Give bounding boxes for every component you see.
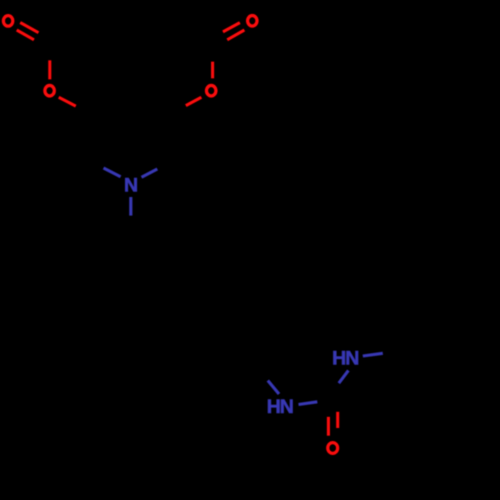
bond N16-C17 up-left (blue half) (268, 381, 279, 395)
svg-text:N: N (124, 175, 138, 197)
bond C2=O1 double bond upper line (red half) (20, 23, 38, 33)
bond N9-C11 up-right (blue half) (142, 169, 158, 177)
atom O18 urea carbonyl oxygen (328, 443, 338, 454)
bond C6=O5 double bond lower line (red half) (227, 30, 244, 40)
svg-text:HN: HN (332, 347, 358, 369)
atom O3 ester oxygen, left acetate (45, 85, 54, 96)
bond N9-C10 up-left (blue half) (104, 168, 121, 177)
bond C15=O18 urea carbonyl double bond left line (red half) (327, 417, 330, 436)
bond C2=O1 double bond lower line (red half) (17, 30, 34, 40)
bond C6-O7 ester single bond (red half, vertical) (211, 62, 214, 79)
atom O1 carbonyl oxygen, left acetate (3, 16, 12, 27)
bond N9-C12 down vertical (blue half) (129, 197, 132, 216)
bond N13-C15 to carbonyl carbon, down-left (blue half) (339, 370, 349, 383)
atom O5 carbonyl oxygen, right acetate (248, 16, 257, 27)
svg-text:HN: HN (267, 396, 293, 418)
bond O3-C4 to CH2 (red half) (59, 97, 76, 106)
bond C6=O5 double bond upper line (red half) (223, 23, 240, 32)
bond O7-C8 to CH2 (red half) (186, 97, 202, 105)
atom O7 ester oxygen, right acetate (207, 85, 216, 96)
bond N13-C14 to phenyl, right (blue half) (363, 353, 383, 356)
bond C2-O3 ester single bond (red half, vertical) (48, 60, 51, 79)
bond C15=O18 urea carbonyl double bond right line (red half) (336, 412, 339, 428)
bond N16-C15 to carbonyl carbon, right (blue half) (299, 402, 318, 405)
